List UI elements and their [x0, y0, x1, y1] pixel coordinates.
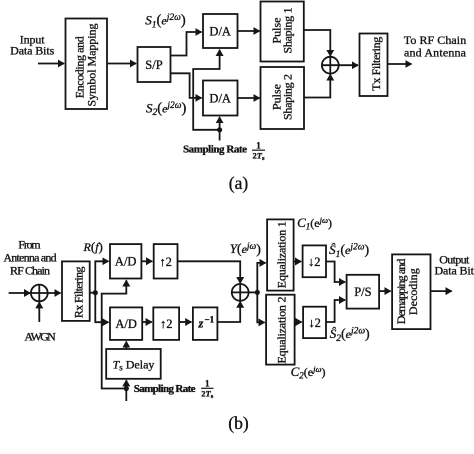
svg-text:(a): (a)	[229, 173, 249, 193]
svg-text:AWGN: AWGN	[24, 330, 56, 344]
svg-text:Shaping 2: Shaping 2	[281, 74, 295, 120]
svg-text:↑2: ↑2	[160, 317, 173, 331]
svg-text:Sampling Rate: Sampling Rate	[183, 144, 247, 156]
svg-text:Data Bits: Data Bits	[10, 44, 54, 58]
svg-text:C2(ejω): C2(ejω)	[291, 364, 326, 381]
svg-text:Rx Filtering: Rx Filtering	[71, 267, 85, 319]
svg-text:Symbol Mapping: Symbol Mapping	[85, 24, 99, 107]
svg-text:↓2: ↓2	[308, 316, 321, 330]
svg-text:↑2: ↑2	[159, 255, 172, 269]
svg-text:z: z	[198, 317, 204, 331]
svg-text:Shaping 1: Shaping 1	[281, 8, 295, 54]
svg-text:Y(ejω): Y(ejω)	[230, 241, 262, 258]
svg-text:A/D: A/D	[115, 255, 137, 269]
svg-text:R(f): R(f)	[83, 239, 103, 254]
svg-text:S/P: S/P	[145, 58, 162, 72]
svg-text:Decoding: Decoding	[406, 268, 420, 315]
svg-text:1: 1	[256, 140, 261, 150]
svg-text:RF Chain: RF Chain	[10, 264, 50, 278]
svg-text:S2(ej2ω): S2(ej2ω)	[146, 100, 187, 118]
svg-text:Data Bits: Data Bits	[434, 264, 474, 278]
svg-text:Ŝ2(ej2ω): Ŝ2(ej2ω)	[330, 326, 370, 344]
svg-text:Equalization 1: Equalization 1	[275, 221, 289, 288]
svg-text:From: From	[18, 238, 41, 252]
svg-text:Ŝ1(ej2ω): Ŝ1(ej2ω)	[329, 242, 369, 260]
svg-text:and Antenna: and Antenna	[404, 46, 467, 60]
svg-text:↓2: ↓2	[308, 255, 321, 269]
svg-text:−1: −1	[205, 315, 215, 325]
svg-text:Tx Filtering: Tx Filtering	[369, 37, 383, 91]
svg-text:S1(ej2ω): S1(ej2ω)	[145, 13, 186, 31]
svg-text:Ts Delay: Ts Delay	[113, 357, 155, 372]
svg-text:P/S: P/S	[354, 285, 371, 299]
svg-text:Sampling Rate: Sampling Rate	[134, 383, 196, 395]
svg-text:1: 1	[205, 379, 210, 389]
svg-text:D/A: D/A	[209, 24, 231, 38]
svg-text:2Ts: 2Ts	[201, 388, 213, 400]
svg-text:Antenna and: Antenna and	[3, 251, 56, 265]
svg-text:D/A: D/A	[209, 91, 231, 105]
svg-text:C1(ejω): C1(ejω)	[297, 215, 332, 232]
svg-text:Equalization 2: Equalization 2	[275, 297, 289, 364]
svg-text:2Ts: 2Ts	[253, 150, 265, 162]
svg-text:A/D: A/D	[115, 317, 137, 331]
svg-text:(b): (b)	[228, 413, 249, 433]
